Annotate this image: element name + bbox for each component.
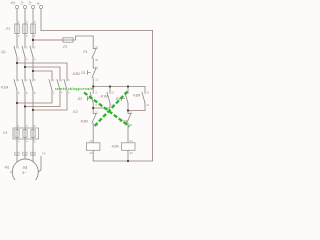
svg-text:-S3: -S3 [115,97,120,101]
node bus hold1 [109,85,111,87]
svg-text:-K1M: -K1M [120,119,128,123]
node coil bus [127,160,129,162]
svg-text:-S2: -S2 [77,97,82,101]
coil K2M [122,143,136,151]
wire L1 drop to fuse [16,9,18,24]
wire phase2 K1 to F4 [24,90,26,128]
wire K2 return to phase2 [25,90,60,107]
svg-text:web diagonale: web diagonale [55,87,94,91]
contactor K1M pole2 [22,80,25,91]
svg-text:A2: A2 [90,151,94,155]
node K2 return 2 [24,105,26,107]
wire to S1 [92,58,94,68]
node bus left [92,85,94,87]
wire N bottom bus [93,160,152,162]
terminal N [39,5,42,8]
wire L3 Q1 to K2 tap [32,57,34,81]
node K2 return 3 [32,109,34,111]
control fuse F2 [63,38,73,42]
svg-text:-F2: -F2 [63,45,68,49]
start button S3 NO [127,87,129,94]
holding contact K1M 13-14 [109,87,111,94]
wire N right riser [152,31,154,162]
svg-text:M: M [23,165,27,170]
wire W1 to motor [32,139,34,162]
fuse F1 phase3 [31,24,35,34]
green highlight line B [95,92,128,127]
wire U1 to motor [16,139,18,162]
terminal L2 [23,5,26,8]
contactor K2M pole1 [49,80,52,91]
contactor K1M pole3 [30,80,33,91]
node control tap [32,39,34,41]
wire L2 drop to fuse [24,9,26,24]
wire K2 feed from L2 [25,67,60,81]
node S3 lower [127,109,129,111]
interlock K2M NC 21-22 [93,113,96,115]
contactor K1M pole1 [14,80,17,91]
wire S2 junction [92,103,94,114]
green highlight line A [84,93,130,127]
svg-text:-K2M: -K2M [72,72,80,76]
stop button S1 NC [93,67,96,69]
wire F2 to corner [73,36,93,49]
svg-text:-M1: -M1 [4,166,10,170]
disconnector Q1 pole3 [30,46,33,57]
wire K2 feed from L3 [33,71,52,81]
wire L2 Q1 to K2 tap [24,57,26,81]
wire phase1 K1 to F4 [16,90,18,128]
node K2 feed 1 [16,62,18,64]
wire V1 to motor [24,139,26,159]
fuse F1 phase1 [15,24,19,34]
wire L2 fuse to Q1 [24,34,26,49]
start button S2 NO [92,87,94,94]
wire K2 return to phase3 [33,90,67,110]
contactor K2M pole3 [64,80,67,91]
wire S1 to bus [92,78,94,87]
node K2 feed 3 [32,70,34,72]
svg-text:-K1M: -K1M [100,95,108,99]
interlock K1M NC 21-22 [128,113,131,115]
svg-text:-F1: -F1 [6,27,11,31]
node S2 lower [92,107,94,109]
terminal V1 [23,152,27,155]
thermal overload F4 box [13,128,39,139]
motor shaft tick [10,171,12,173]
node K2 return 1 [16,102,18,104]
wire S3 junction [127,103,129,114]
wire control tap red [33,39,63,41]
svg-text:-S1: -S1 [81,71,86,75]
terminal W1 [31,152,35,155]
svg-text:-K2M: -K2M [133,94,141,98]
junction dots [16,39,129,162]
wire L3 drop to fuse [32,9,34,24]
fuse F1 phase2 [23,24,27,34]
terminal L3 [31,5,34,8]
terminal L1 [15,5,18,8]
svg-text:-Q1: -Q1 [1,50,7,54]
node K2 feed 2 [24,66,26,68]
svg-text:A1: A1 [90,139,94,143]
wire L1 Q1 to K2 tap [16,57,18,81]
holding contact K2M 13-14 [144,87,146,94]
wire N drop [40,9,42,31]
wire PE to motor [38,156,41,172]
wire K2 return to phase1 [17,90,52,103]
svg-text:-K2M: -K2M [80,119,88,123]
motor M1 [12,159,38,185]
wire phase3 K1 to F4 [32,90,34,128]
thermal aux F4 NC 95-96 [93,48,96,50]
svg-text:-F4: -F4 [3,131,8,135]
wire L1 fuse to Q1 [16,34,18,49]
coil K1M [86,143,100,151]
svg-text:PE: PE [42,153,46,156]
label L1 [11,2,13,4]
svg-text:A2: A2 [130,151,134,155]
wire L3 fuse to Q1 [32,34,34,49]
disconnector Q1 pole1 [14,46,17,57]
wire to K1 coil [92,123,94,143]
svg-text:-K1M: -K1M [1,86,9,90]
svg-text:-K2: -K2 [73,110,78,114]
node bus S3 [127,85,129,87]
wire to K2 coil [127,123,129,143]
wire N horizontal run [41,30,153,32]
contactor K2M pole2 [57,80,60,91]
svg-text:-K2M: -K2M [111,144,119,148]
svg-text:-F4: -F4 [83,50,88,54]
wire K2 feed from L1 [17,63,67,81]
terminal U1 [15,152,19,155]
control bus [93,86,145,88]
disconnector Q1 pole2 [22,46,25,57]
svg-text:A1: A1 [130,139,134,143]
